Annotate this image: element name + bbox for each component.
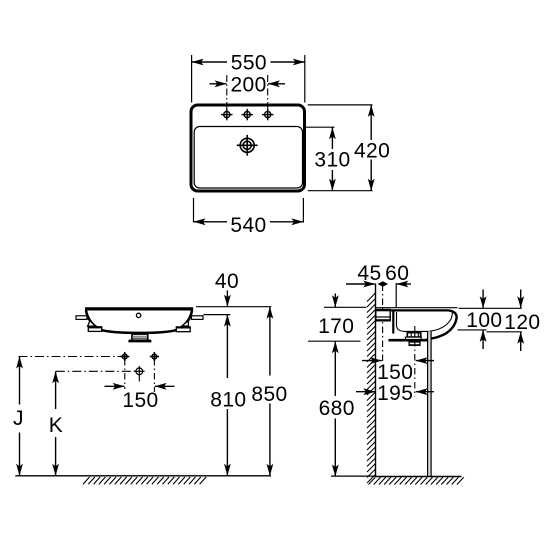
- 170 top extension line: [324, 306, 367, 308]
- dim 170 arrow: [334, 294, 336, 308]
- left bracket foot: [88, 327, 101, 332]
- dim 550 extension lines: [192, 55, 305, 103]
- drain trap side: [407, 333, 420, 338]
- svg-text:420: 420: [354, 139, 390, 162]
- outer rim rounded rect: [191, 105, 305, 191]
- shared bottom extension line: [308, 190, 373, 192]
- drain trap front: [129, 332, 151, 341]
- svg-text:195: 195: [377, 382, 413, 405]
- dim 420 line and arrows: [370, 105, 372, 140]
- svg-text:40: 40: [215, 270, 239, 293]
- svg-text:540: 540: [230, 214, 266, 237]
- wall face line: [375, 284, 377, 477]
- dim 540 extension lines: [194, 198, 304, 223]
- dim 200 arrows: [210, 83, 227, 85]
- wall drain symbol: [134, 366, 145, 377]
- overflow hole: [136, 313, 140, 317]
- right bracket triangle: [182, 321, 189, 326]
- wall supply stars: [120, 352, 129, 361]
- dim K line: [52, 371, 59, 383]
- svg-text:810: 810: [210, 389, 246, 412]
- drop dash lines from stars: [125, 359, 155, 392]
- basin side: thick rim line: [376, 309, 449, 311]
- dim 150 side arrows: [362, 360, 382, 362]
- extension line top (850 level): [196, 306, 271, 308]
- dim 120 bottom arrow: [520, 332, 522, 351]
- J level dash-dot line: [19, 356, 125, 358]
- svg-text:850: 850: [251, 383, 287, 406]
- dim 540 line and arrows: [194, 221, 228, 223]
- left tab: [76, 316, 87, 320]
- svg-text:J: J: [13, 407, 24, 430]
- dim 420 top extension line: [308, 104, 373, 106]
- inner basin rounded rect: [194, 127, 302, 189]
- bowl outline: [86, 311, 192, 333]
- svg-text:150: 150: [377, 361, 413, 384]
- drain target symbol: [237, 135, 258, 156]
- dim 45/60 arrows: [346, 283, 375, 285]
- right floor hatching: [369, 477, 464, 484]
- extension line tab-top (810 level): [204, 314, 231, 316]
- dim 195 side arrows: [356, 391, 375, 393]
- svg-text:K: K: [49, 414, 63, 437]
- dim 200 dash-dot extension lines: [227, 75, 268, 113]
- svg-text:100: 100: [466, 309, 502, 332]
- dim 810 line: [224, 315, 231, 327]
- svg-text:200: 200: [230, 74, 266, 97]
- basin side: inner bowl line: [397, 312, 453, 332]
- svg-text:310: 310: [314, 148, 350, 171]
- basin side: left bowl wall: [392, 312, 394, 334]
- right tab: [192, 316, 204, 320]
- dim 680 line: [332, 341, 339, 353]
- svg-text:120: 120: [504, 311, 540, 334]
- extension line 60: [395, 283, 397, 308]
- basin side: top thin line: [376, 307, 458, 309]
- svg-text:45: 45: [357, 262, 381, 285]
- dim 100 top arrow: [482, 290, 484, 309]
- wall hatching: [367, 293, 376, 483]
- dim 550 line and arrows: [192, 61, 305, 63]
- drain centerline dash-dot: [414, 326, 416, 397]
- floor hatching left figure: [83, 477, 206, 484]
- dim 150 arrows (front): [105, 385, 125, 387]
- tap centerline dash-dot: [382, 285, 384, 364]
- right floor line: [376, 476, 462, 478]
- dim 40 arrow: [226, 291, 228, 307]
- dim 120 top arrow: [520, 290, 522, 309]
- svg-text:550: 550: [231, 52, 267, 75]
- drain pipe: [428, 331, 432, 476]
- tap hole stars: [221, 109, 232, 120]
- left bracket triangle: [88, 320, 96, 326]
- basin side: outer right curve: [427, 310, 457, 339]
- ground line segment left of wall: [331, 475, 376, 477]
- svg-text:170: 170: [318, 315, 354, 338]
- dim 310 line and arrows: [331, 127, 333, 149]
- dim 100 bottom arrow: [482, 330, 484, 349]
- dim J line: [16, 357, 23, 369]
- drain lip below: [409, 342, 420, 345]
- wall bracket: [376, 310, 390, 321]
- 170 bottom extension line: [308, 340, 361, 342]
- svg-text:150: 150: [122, 389, 158, 412]
- dim 120 bottom extension line: [487, 331, 522, 333]
- rim line: [85, 307, 193, 310]
- dim 100/120 top extension line: [459, 307, 522, 309]
- dim 850 line: [267, 307, 274, 319]
- right bracket foot: [176, 327, 190, 332]
- ground baseline: [15, 475, 271, 477]
- dim 310 extension line: [303, 126, 335, 128]
- drain trap band: [405, 337, 421, 339]
- dim 100 bottom extension line: [458, 329, 487, 331]
- svg-text:680: 680: [319, 397, 355, 420]
- basin side: bottom thick line: [389, 339, 432, 342]
- K level dash-dot line: [56, 370, 139, 372]
